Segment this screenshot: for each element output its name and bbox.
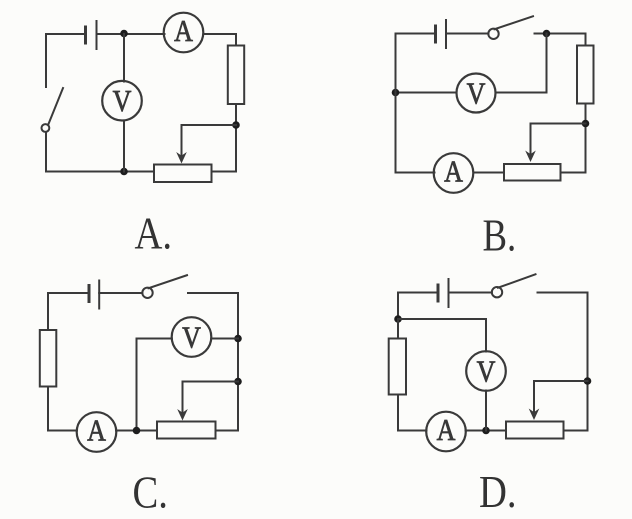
wire B bottom to ammeter [396,172,435,174]
battery A long plate (right, positive) [96,21,98,49]
switch S3 pivot circle [142,288,152,298]
wire A rheostat right to right vertical [212,171,237,173]
wire C resistor bottom to ammeter [48,387,77,431]
wire B ammeter to rheostat [474,172,505,174]
svg-text:V: V [467,76,486,111]
svg-text:B.: B. [483,211,517,262]
svg-text:A: A [437,413,456,448]
rheostat B [504,164,561,181]
voltmeter V2 [457,74,496,113]
wire B voltmeter right lead up to top node [496,34,547,93]
wiper arrowhead A [176,152,187,164]
battery D short plate [437,285,440,301]
wiper branch C [183,382,239,414]
voltmeter V4 [466,351,506,391]
wire D switch to top-right corner and down [538,293,588,431]
battery B long plate [445,20,447,48]
wire C rheostat right to right vertical [216,430,239,432]
wire D left vertical node to resistor [397,319,399,339]
ammeter A4 [426,412,466,452]
node C bottom (voltmeter junction) [133,427,141,435]
ammeter A3 [77,412,117,452]
wire A voltmeter top lead [123,34,125,82]
wiper branch D [534,381,588,413]
wire A top-left from switch top to battery [46,34,85,87]
node D right (wiper junction) [584,377,592,385]
wire C top-left [48,293,88,330]
svg-text:D.: D. [479,467,517,518]
wire B left side down [395,34,397,173]
wiper branch A: horizontal and stem [182,125,237,157]
resistor R (right side of A) [228,46,244,105]
wiper branch B [531,124,586,156]
wire D battery to switch [449,292,492,294]
svg-text:A: A [444,154,463,189]
switch S2 pivot circle [488,29,498,39]
wire B battery to switch [446,33,488,35]
resistor R (left side of D) [389,339,406,395]
wire A battery to node to ammeter [97,33,165,35]
wire C ammeter to rheostat left [116,430,157,432]
wiper arrowhead B [525,151,536,163]
wiper arrowhead C [177,409,188,421]
wire C battery to switch [99,292,142,294]
battery C short plate [88,286,91,302]
wire C voltmeter left lead down to bottom node [137,339,172,431]
wire B rheostat right to right vertical [561,172,586,174]
node A right (wiper junction) [232,121,240,129]
wire A voltmeter bottom lead [123,121,125,172]
wire A resistor bottom down right side [235,104,237,172]
wire D voltmeter branch top [398,319,486,352]
wiper arrowhead D [529,409,540,421]
svg-text:C.: C. [133,467,168,518]
resistor R (right side of B) [577,46,594,104]
wire B resistor bottom down [585,104,587,173]
rheostat D [506,422,564,439]
battery B short plate [434,26,437,42]
switch S2 blade [495,16,534,29]
svg-text:A.: A. [135,208,173,259]
node B right (wiper junction) [582,120,590,128]
resistor R (left side of C) [40,330,57,387]
node D bottom (voltmeter junction) [482,427,490,435]
wire D voltmeter bottom lead [485,391,487,431]
node C wiper junction [234,378,242,386]
wire B voltmeter left lead [396,92,457,94]
wire D ammeter to rheostat left [466,430,507,432]
battery C long plate [98,281,100,309]
node D top-left (voltmeter junction) [394,315,402,323]
battery D long plate [448,279,450,307]
wire D top-left [398,293,438,320]
battery A short plate (left, negative) [84,27,87,43]
switch S4 blade [498,274,536,287]
switch S1 pivot circle [42,124,50,132]
ammeter A1 [164,13,204,53]
rheostat C [157,422,216,439]
svg-text:V: V [477,354,496,389]
node A top (junction of voltmeter branch) [120,30,128,38]
node B left (voltmeter junction) [392,89,400,97]
wire B down to resistor [585,34,587,46]
wire B top-left [396,33,435,35]
svg-text:A: A [87,413,106,448]
switch S1 blade [49,88,64,124]
svg-text:A: A [174,14,193,49]
voltmeter V1 [102,81,142,121]
svg-text:V: V [182,320,201,355]
node C voltmeter-right junction [234,335,242,343]
switch S3 blade [149,275,188,288]
wire D resistor bottom to ammeter [398,395,427,431]
wire B switch to top-right corner [535,33,586,35]
wire C switch to top-right corner and down [188,293,238,431]
wire C voltmeter right lead [211,338,238,340]
node A bottom (voltmeter branch) [120,168,128,176]
rheostat A (bottom) [154,165,212,183]
wire A ammeter to right corner down to resistor [204,34,237,46]
ammeter A2 [434,153,474,193]
switch S4 pivot circle [492,287,502,297]
wire A bottom from switch bottom to rheostat left [46,133,154,172]
wire D rheostat right to right vertical [564,430,588,432]
voltmeter V3 [172,317,212,357]
svg-text:V: V [113,84,132,119]
node B top (voltmeter junction) [543,30,551,38]
